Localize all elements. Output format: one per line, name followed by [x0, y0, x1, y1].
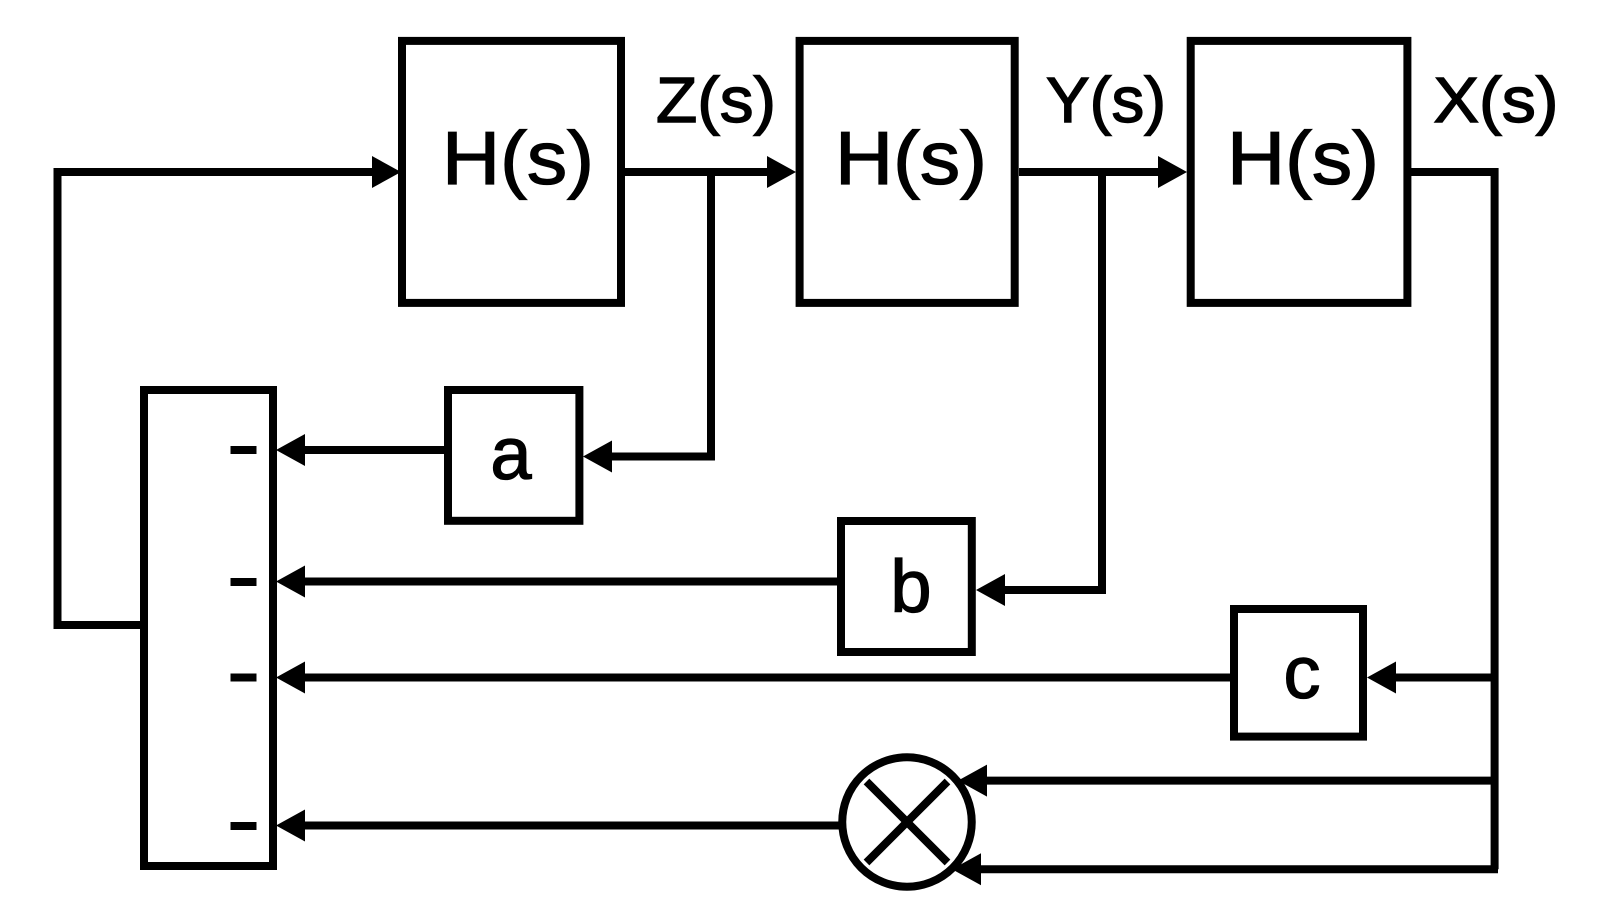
- wire: H(s)3 output X(s) right vertical bus: [1411, 172, 1495, 869]
- wire: Y(s) branch down to gain b: [1005, 172, 1102, 590]
- arrowhead into block H(s)2: [767, 156, 796, 188]
- minus sign row 2: [231, 578, 257, 586]
- arrowhead into block H(s)3: [1158, 156, 1187, 188]
- arrowhead into gain c: [1367, 662, 1396, 694]
- minus sign row 4: [231, 822, 257, 830]
- arrowhead into block H(s)1: [372, 156, 401, 188]
- wire: summing block output, left feedback loop up to H(s)1 input: [58, 172, 373, 625]
- arrowhead into summing block row 3: [276, 662, 305, 694]
- svg-text:H(s): H(s): [1227, 116, 1379, 200]
- svg-text:Z(s): Z(s): [656, 64, 776, 136]
- summing block rectangle: [144, 390, 273, 866]
- svg-text:b: b: [890, 545, 931, 628]
- wire: X(s) bus to gain c: [1396, 674, 1495, 682]
- multiplier circle: [842, 757, 972, 887]
- svg-text:Y(s): Y(s): [1046, 64, 1166, 136]
- wire: H(s)1 to H(s)2 (Z(s) line): [625, 168, 767, 176]
- multiplier X diagonal 2: [867, 782, 948, 863]
- minus sign row 3: [231, 674, 257, 682]
- multiplier X diagonal 1: [867, 782, 948, 863]
- wire: gain a output to summing block: [305, 446, 444, 454]
- block H(s)3: [1191, 41, 1408, 303]
- svg-text:c: c: [1284, 631, 1321, 714]
- block H(s)2: [800, 41, 1015, 303]
- svg-text:H(s): H(s): [835, 116, 987, 200]
- wire: Z(s) branch down to gain a: [612, 172, 711, 457]
- arrowhead into summing block row 2: [276, 566, 305, 598]
- minus sign row 1: [231, 446, 257, 454]
- wire: multiplier output to summing block: [305, 822, 842, 830]
- gain block a: [448, 390, 579, 521]
- wire: X(s) bus bottom to multiplier lower input: [981, 865, 1498, 873]
- svg-text:H(s): H(s): [442, 116, 594, 200]
- arrowhead into summing block row 1: [276, 434, 305, 466]
- arrowhead into multiplier lower input: [952, 853, 981, 885]
- wire: gain b output to summing block: [305, 578, 841, 586]
- gain block c: [1234, 609, 1363, 737]
- arrowhead into gain b: [976, 574, 1005, 606]
- arrowhead into summing block row 4: [276, 810, 305, 842]
- wire: X(s) bus to multiplier upper input: [987, 777, 1495, 785]
- arrowhead into multiplier upper input: [958, 765, 987, 797]
- wire: gain c output to summing block: [305, 674, 1230, 682]
- wire: H(s)2 to H(s)3 (Y(s) line): [1019, 168, 1158, 176]
- block H(s)1: [402, 41, 621, 303]
- gain block b: [841, 521, 972, 652]
- svg-text:a: a: [490, 412, 532, 495]
- arrowhead into gain a: [583, 441, 612, 473]
- svg-text:X(s): X(s): [1434, 64, 1559, 136]
